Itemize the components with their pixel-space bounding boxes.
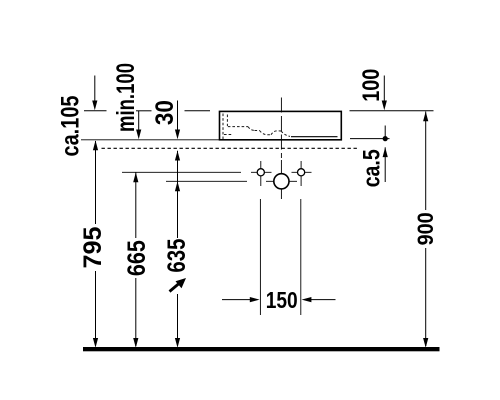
svg-text:30: 30 <box>151 100 179 125</box>
basin-bottom extension line, right with dot <box>350 138 390 140</box>
right faucet hole <box>292 171 312 173</box>
svg-text:ca.105: ca.105 <box>57 95 85 156</box>
basin-bottom extension line, left <box>81 139 220 141</box>
dimension line 795 <box>95 141 97 224</box>
dimension 30 lower arrow / 635 line <box>175 151 180 161</box>
svg-text:ca.5: ca.5 <box>359 149 386 187</box>
svg-text:150: 150 <box>266 287 298 313</box>
washbasin outline (side view) <box>220 111 342 139</box>
svg-text:665: 665 <box>123 240 151 276</box>
svg-text:min.100: min.100 <box>112 63 140 132</box>
basin interior waterline (solid) <box>291 136 338 138</box>
svg-text:635: 635 <box>163 239 191 273</box>
dashed wall line <box>102 147 360 149</box>
dimension ca.105 upper arrow <box>94 76 96 104</box>
left faucet hole <box>251 171 272 173</box>
drain hole (big circle) <box>266 180 297 182</box>
dimension 30 upper arrow <box>177 101 179 133</box>
dimension ca.5 <box>384 126 386 139</box>
centre line of basin <box>280 98 282 159</box>
basin interior hidden profile (dashed) <box>223 114 290 140</box>
dimension line 665 <box>133 172 138 182</box>
big-hole-level extension line <box>166 180 247 182</box>
dimension line 100 (right) <box>383 76 385 104</box>
rim-top extension line, right <box>350 110 434 112</box>
svg-text:100: 100 <box>358 69 385 102</box>
svg-text:900: 900 <box>413 212 438 245</box>
dimension line min.100 <box>138 111 140 132</box>
floor line <box>83 347 440 351</box>
leader arrow for 635 <box>170 284 180 292</box>
rim-top extension line, left segments <box>84 110 210 112</box>
hole extension lines down to 150 dim <box>259 199 261 315</box>
faucet-level extension line <box>122 171 241 173</box>
svg-text:795: 795 <box>79 226 107 268</box>
dimension line 900 <box>423 112 428 122</box>
dimension 150 arrows <box>222 299 252 301</box>
